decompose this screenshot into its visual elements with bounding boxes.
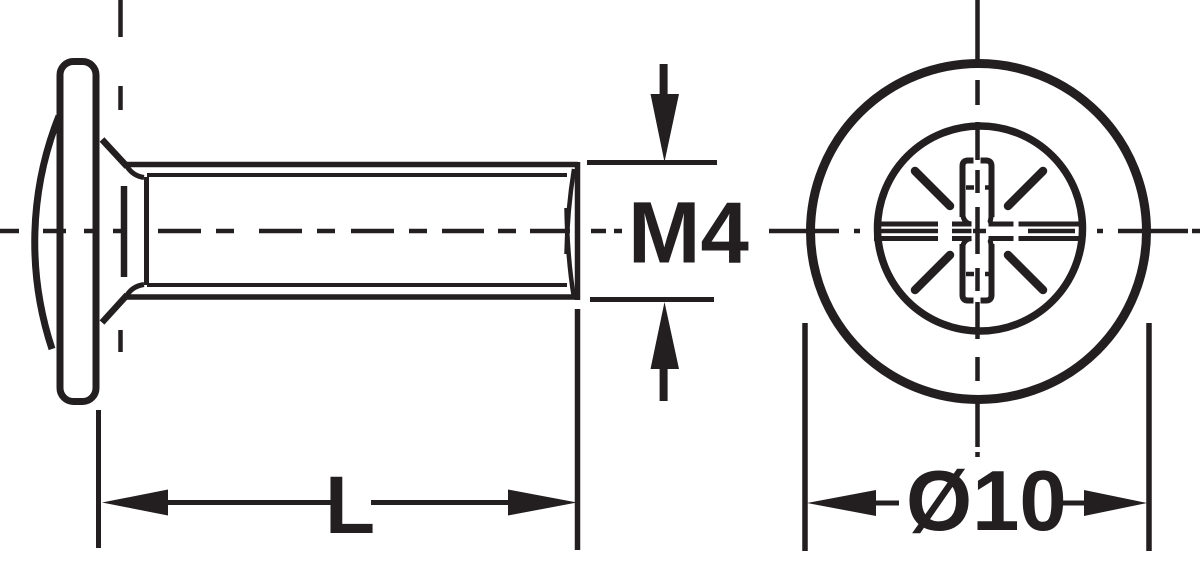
horizontal centerline dashes: [0, 229, 1200, 234]
M4 top extension line: [587, 160, 717, 165]
shaft end chamfer arc 1: [567, 169, 575, 254]
shaft top inner thread line: [147, 173, 567, 177]
pozidriv diagonals: [915, 171, 1043, 290]
M4 top arrow: [651, 64, 680, 162]
outer circle (head Ø10 front view): [811, 64, 1147, 400]
L left arrowhead: [102, 490, 168, 516]
neck upper fillet: [127, 167, 144, 178]
Ø10 left extension line: [802, 323, 808, 551]
shaft top outer line: [126, 162, 578, 168]
shaft end chamfer arc 2: [567, 208, 575, 298]
L dimension line left segment: [166, 500, 331, 505]
pozidriv vertical slot lower left wall: [963, 244, 974, 301]
head vertical centerline dashes: [118, 0, 123, 352]
head capsule (side view, flat head face): [60, 62, 96, 402]
pozidriv center fillets: [963, 213, 992, 248]
shaft bottom inner thread line: [147, 283, 567, 287]
pozidriv vertical slot upper left wall: [963, 161, 974, 218]
svg-text:Ø10: Ø10: [906, 454, 1067, 549]
thread boundary line: [144, 177, 149, 285]
pozidriv vertical slot lower right wall: [981, 244, 992, 301]
svg-text:L: L: [325, 460, 375, 551]
L right arrowhead: [508, 490, 577, 516]
Ø10 dimension line right stub: [1061, 501, 1084, 506]
neck upper line: [102, 140, 127, 167]
pozidriv horizontal slot walls: [874, 224, 1082, 239]
M4 bottom arrow: [651, 302, 680, 401]
Ø10 dimension line left stub: [876, 501, 899, 506]
inner circle: [878, 126, 1083, 331]
Ø10 right arrowhead: [1084, 490, 1147, 516]
vertical centerline dashes (front view): [975, 0, 980, 457]
head/shank transition line: [121, 186, 128, 277]
shaft bottom outer line: [126, 294, 578, 300]
Ø10 left arrowhead: [807, 490, 876, 516]
Ø10 right extension line: [1146, 323, 1152, 551]
L left extension line: [96, 410, 101, 548]
pozidriv vertical slot upper right wall: [981, 161, 992, 218]
shaft end line: [575, 162, 581, 300]
pozidriv wing ticks: [966, 188, 993, 275]
L dimension line right segment: [371, 500, 510, 505]
M4 bottom extension line: [590, 297, 714, 302]
svg-text:M4: M4: [628, 185, 749, 282]
head dome arc: [35, 116, 59, 349]
L right extension line: [575, 309, 581, 550]
neck lower line: [102, 295, 127, 323]
neck lower fillet: [127, 285, 144, 296]
